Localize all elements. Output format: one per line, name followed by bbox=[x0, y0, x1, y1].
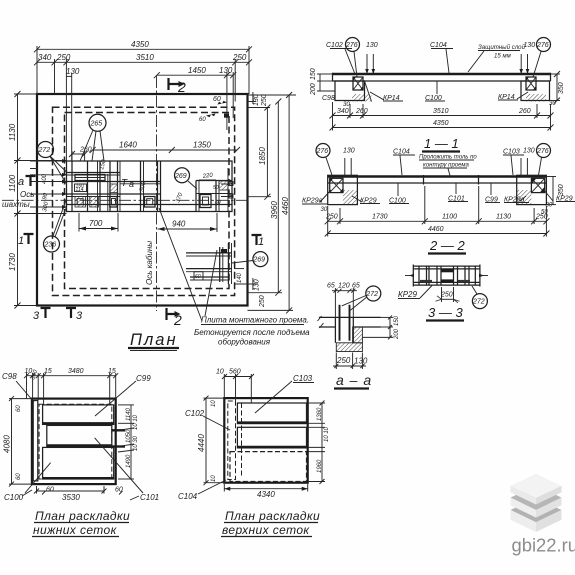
svg-text:С104: С104 bbox=[430, 42, 447, 49]
right chain 3960 bbox=[248, 99, 283, 296]
callout circle 269 right bbox=[232, 252, 268, 267]
SECTION 3-3 bbox=[398, 265, 488, 321]
slab 1 top bbox=[511, 474, 562, 505]
svg-text:План раскладки: План раскладки bbox=[35, 509, 130, 523]
left dim 4440 bbox=[197, 396, 224, 486]
beam box in grid bbox=[75, 175, 105, 181]
montage plate anchor bbox=[194, 272, 203, 280]
svg-text:130: 130 bbox=[343, 148, 355, 155]
svg-text:60: 60 bbox=[199, 117, 206, 123]
note text plita bbox=[194, 316, 310, 347]
label KP14 left with leader bbox=[370, 92, 403, 102]
right embed square with cross bbox=[526, 77, 536, 90]
right dim chain mp1 bbox=[118, 405, 139, 479]
svg-text:3: 3 bbox=[76, 310, 83, 322]
section marker 1 left bbox=[18, 234, 34, 247]
slab left edge bbox=[332, 73, 334, 81]
svg-text:Ось кабины: Ось кабины bbox=[145, 241, 154, 285]
svg-text:3: 3 bbox=[33, 310, 40, 322]
svg-text:200: 200 bbox=[394, 328, 400, 340]
svg-text:1100: 1100 bbox=[8, 174, 17, 192]
right dim chain small 130 250 top bbox=[248, 92, 297, 108]
dim 130 above left bbox=[365, 42, 378, 74]
title mp1 bbox=[32, 509, 130, 537]
right chain 1850 bbox=[248, 105, 272, 200]
svg-text:60: 60 bbox=[46, 487, 54, 494]
svg-text:90: 90 bbox=[42, 192, 49, 200]
section marker 2 top bbox=[169, 78, 187, 95]
svg-text:560: 560 bbox=[229, 369, 241, 376]
dim 130 above right s22 bbox=[521, 148, 535, 177]
svg-text:1050: 1050 bbox=[126, 429, 132, 443]
label C99 s22 bbox=[485, 184, 500, 204]
dim 130 above left s22 bbox=[343, 148, 355, 177]
svg-text:План: План bbox=[130, 331, 178, 349]
dims 250 130 aa bbox=[333, 353, 368, 370]
svg-text:gbi22.ru: gbi22.ru bbox=[512, 535, 575, 556]
label KP29a left outside bbox=[302, 190, 331, 205]
left vertical dims 150 200 bbox=[310, 68, 335, 96]
svg-text:С103: С103 bbox=[503, 149, 520, 156]
svg-text:50: 50 bbox=[213, 185, 219, 191]
end arrows bbox=[409, 274, 484, 278]
svg-text:КР29: КР29 bbox=[398, 290, 418, 299]
svg-text:150: 150 bbox=[394, 315, 400, 326]
dim chain 340 260 3510 260 bbox=[330, 102, 554, 131]
svg-text:700: 700 bbox=[89, 219, 103, 228]
svg-text:60: 60 bbox=[213, 96, 221, 103]
svg-text:10 30: 10 30 bbox=[133, 435, 139, 451]
svg-text:15 мм: 15 мм bbox=[494, 53, 512, 60]
UPPER MESH PLAN bbox=[178, 369, 330, 538]
slab bottom line bbox=[333, 80, 551, 82]
svg-text:130: 130 bbox=[354, 357, 368, 366]
svg-text:4080: 4080 bbox=[3, 435, 12, 453]
right vertical dim 350 bbox=[550, 71, 566, 104]
svg-text:План раскладки: План раскладки bbox=[225, 509, 320, 523]
title a-a bbox=[334, 372, 372, 389]
top dim mp2 bbox=[216, 369, 254, 404]
callout circle 272 bbox=[38, 142, 67, 185]
callout circle 272 s33 bbox=[472, 286, 487, 309]
svg-text:265: 265 bbox=[90, 120, 103, 127]
svg-text:276: 276 bbox=[345, 42, 358, 49]
svg-text:250: 250 bbox=[261, 94, 268, 107]
svg-text:130: 130 bbox=[366, 42, 378, 49]
svg-text:С99: С99 bbox=[136, 374, 151, 383]
svg-text:1850: 1850 bbox=[258, 147, 267, 165]
slab left break marks bbox=[318, 316, 324, 328]
svg-text:276: 276 bbox=[536, 42, 549, 49]
right support block bbox=[521, 81, 550, 101]
svg-text:276: 276 bbox=[536, 148, 549, 155]
ladder bottom rail bbox=[413, 281, 480, 283]
right hatch patch bbox=[517, 190, 532, 205]
ladder end caps bbox=[412, 265, 414, 287]
label C103 s22 bbox=[503, 149, 524, 176]
montage plate detail horizontals bbox=[186, 252, 232, 254]
callout circle 276 left s22 bbox=[316, 144, 334, 179]
top dim 1450 130 bbox=[154, 66, 236, 130]
anchor plate hatched 1 bbox=[75, 197, 86, 208]
right chain 4460 bbox=[248, 92, 294, 313]
middle mesh sheet mp2 bbox=[237, 427, 306, 448]
svg-text:272: 272 bbox=[38, 147, 51, 154]
leader C101 bbox=[95, 438, 143, 493]
title mp2 bbox=[221, 509, 320, 537]
svg-text:65: 65 bbox=[327, 283, 335, 290]
left grid verticals bbox=[71, 161, 73, 212]
dim 250 s33 bbox=[436, 287, 460, 303]
svg-text:КР29а: КР29а bbox=[302, 198, 323, 205]
anchor plate hatched 3 bbox=[110, 184, 118, 193]
anchor loop bar left bbox=[339, 305, 341, 341]
label KP29 left bbox=[352, 196, 380, 205]
svg-text:250: 250 bbox=[535, 214, 548, 221]
PLAN VIEW bbox=[2, 40, 310, 351]
bottom dim 4340 bbox=[224, 484, 307, 499]
shaft outer wall bbox=[37, 94, 248, 306]
dashed wall line outer bbox=[53, 107, 235, 295]
svg-text:130: 130 bbox=[254, 279, 261, 291]
svg-text:верхних сеток: верхних сеток bbox=[222, 523, 310, 537]
svg-text:3480: 3480 bbox=[68, 368, 84, 375]
svg-text:60: 60 bbox=[16, 405, 22, 412]
svg-text:10: 10 bbox=[216, 369, 224, 376]
svg-text:1490: 1490 bbox=[126, 454, 132, 468]
shaft horizontal axis bbox=[2, 199, 250, 201]
svg-text:С102: С102 bbox=[185, 409, 205, 418]
svg-text:120: 120 bbox=[338, 283, 350, 290]
svg-text:С98: С98 bbox=[2, 372, 17, 381]
dark weld segments bbox=[442, 269, 454, 272]
channel left wall bbox=[334, 317, 336, 342]
top mesh sheet C103 bbox=[237, 403, 306, 424]
LOWER MESH PLAN bbox=[2, 368, 159, 537]
svg-text:1100: 1100 bbox=[442, 214, 457, 221]
svg-text:250: 250 bbox=[232, 53, 247, 62]
label box 150/114 bbox=[75, 184, 87, 192]
right arrows bbox=[112, 429, 125, 431]
callout circle 269 in strip bbox=[174, 168, 197, 189]
svg-text:114: 114 bbox=[76, 187, 84, 193]
slab top thick line bbox=[328, 175, 547, 177]
label C102 with leader bbox=[326, 42, 355, 74]
leader C99 bbox=[95, 381, 136, 416]
dim 260 small above grid bbox=[69, 147, 92, 162]
left tick arrows into strip bbox=[30, 161, 66, 207]
svg-text:1: 1 bbox=[18, 235, 24, 247]
svg-text:500: 500 bbox=[139, 181, 148, 193]
svg-text:2: 2 bbox=[173, 312, 182, 328]
right vertical dim 350 s22 bbox=[546, 177, 565, 205]
LOGO bbox=[511, 474, 575, 556]
SECTION 1-1 bbox=[310, 38, 565, 152]
svg-text:1: 1 bbox=[258, 236, 264, 248]
svg-text:250: 250 bbox=[336, 356, 351, 365]
svg-text:С102: С102 bbox=[326, 42, 343, 49]
SECTION 2-2 bbox=[302, 144, 575, 254]
slab 2 middle bbox=[511, 485, 562, 517]
svg-text:1730: 1730 bbox=[372, 214, 388, 221]
svg-text:276: 276 bbox=[316, 148, 329, 155]
dim 130 above right bbox=[519, 42, 535, 74]
right hatch patch bbox=[526, 94, 546, 102]
left dim 4080 bbox=[3, 396, 32, 487]
svg-text:4460: 4460 bbox=[428, 226, 444, 233]
svg-text:260: 260 bbox=[355, 108, 368, 115]
channel right wall bbox=[352, 317, 354, 342]
svg-text:940: 940 bbox=[172, 220, 186, 229]
svg-text:130: 130 bbox=[66, 67, 80, 76]
anchor plate hatched 5 bbox=[145, 197, 156, 208]
svg-text:оборудования: оборудования bbox=[218, 338, 271, 347]
slab 3 bottom bbox=[511, 498, 562, 532]
dim 4350 bottom bbox=[330, 120, 554, 131]
svg-text:Плита монтажного проема.: Плита монтажного проема. bbox=[201, 316, 309, 325]
label C103 mp2 bbox=[255, 374, 314, 413]
label C104 with leader bbox=[430, 42, 453, 73]
SECTION a-a bbox=[318, 283, 401, 389]
svg-text:65: 65 bbox=[352, 283, 360, 290]
bottom mesh dashed mp2 bbox=[230, 452, 307, 482]
label C104 mp2 bbox=[178, 480, 226, 501]
svg-text:1140: 1140 bbox=[126, 407, 132, 421]
svg-text:370: 370 bbox=[175, 192, 184, 204]
section marker 1 right bbox=[252, 235, 265, 248]
top dim 130 small bbox=[66, 67, 80, 76]
dim 700 bbox=[79, 213, 118, 232]
cabin vertical axis bbox=[156, 76, 158, 311]
svg-text:10: 10 bbox=[211, 475, 217, 482]
svg-text:1 — 1: 1 — 1 bbox=[424, 136, 459, 151]
svg-text:1640: 1640 bbox=[119, 141, 137, 150]
label KP29 right outside bbox=[544, 190, 575, 203]
svg-text:220: 220 bbox=[201, 173, 213, 181]
svg-text:260: 260 bbox=[518, 108, 531, 115]
top dim line 4350 bbox=[34, 40, 252, 52]
opening strip outline bbox=[67, 161, 233, 212]
flag Б upper bbox=[221, 182, 233, 186]
top dim chain mp1 bbox=[24, 368, 118, 405]
flag Б lower bbox=[221, 194, 233, 198]
label C100 bbox=[425, 81, 445, 102]
section marker 3 bottom pair bbox=[33, 308, 83, 322]
svg-text:269: 269 bbox=[252, 257, 265, 264]
slab bottom line aa right bbox=[353, 326, 381, 328]
svg-text:4340: 4340 bbox=[257, 490, 275, 499]
section marker a left bbox=[18, 176, 36, 188]
svg-text:30: 30 bbox=[321, 207, 328, 213]
right chain bottom 130 250 bbox=[253, 278, 266, 308]
title 1-1 bbox=[422, 136, 460, 152]
middle mesh sheet bbox=[47, 425, 112, 446]
label C101 s22 bbox=[448, 184, 468, 203]
svg-text:15: 15 bbox=[108, 368, 116, 375]
svg-text:Защитный слой: Защитный слой bbox=[478, 44, 526, 51]
right embed square with cross bbox=[531, 178, 544, 192]
svg-text:а: а bbox=[129, 179, 134, 189]
ladder top rail bbox=[413, 265, 480, 267]
dashed mesh C100 bbox=[39, 404, 112, 479]
svg-text:250: 250 bbox=[325, 214, 338, 221]
svg-text:шахты: шахты bbox=[2, 200, 30, 209]
anchor square right bbox=[200, 195, 211, 208]
svg-text:2 — 2: 2 — 2 bbox=[429, 238, 465, 253]
svg-text:а: а bbox=[18, 176, 24, 188]
dim chain 250 1730 1100 1130 250 bbox=[325, 186, 550, 237]
strip inner bottom line bbox=[67, 204, 233, 206]
svg-text:140: 140 bbox=[237, 272, 243, 283]
svg-text:60: 60 bbox=[16, 473, 22, 480]
dim 4460 s22 bbox=[325, 226, 550, 237]
title 2-2 bbox=[428, 238, 466, 254]
svg-text:С104: С104 bbox=[178, 492, 198, 501]
svg-text:1350: 1350 bbox=[193, 141, 211, 150]
svg-text:272: 272 bbox=[472, 299, 485, 306]
left support block bbox=[328, 175, 358, 204]
strip mid divider bbox=[160, 161, 162, 212]
callout circle 276 left bbox=[345, 38, 360, 78]
callout circle 272 aa bbox=[342, 286, 381, 310]
leader C100 bbox=[25, 463, 51, 493]
svg-text:С101: С101 bbox=[140, 493, 159, 502]
svg-text:350: 350 bbox=[558, 82, 565, 94]
svg-text:нижних сеток: нижних сеток bbox=[33, 523, 118, 537]
svg-text:3530: 3530 bbox=[62, 493, 80, 502]
dim 940 bbox=[158, 213, 218, 232]
right vertical dims 150 200 aa bbox=[362, 315, 400, 340]
anchor loop bar right bbox=[349, 305, 351, 341]
svg-text:3 — 3: 3 — 3 bbox=[428, 305, 463, 320]
montage plate detail verticals bbox=[219, 247, 221, 282]
dashed wall line inner bbox=[65, 113, 230, 289]
label KP29 s33 bbox=[398, 286, 432, 300]
slab top line aa bbox=[319, 316, 381, 318]
svg-text:340: 340 bbox=[38, 53, 52, 62]
svg-text:4440: 4440 bbox=[197, 434, 206, 452]
svg-text:4460: 4460 bbox=[281, 197, 290, 215]
svg-text:250: 250 bbox=[440, 292, 453, 299]
vertical dashed inner bbox=[241, 403, 243, 478]
callout circle 265 bbox=[80, 114, 106, 161]
right support block bbox=[517, 175, 547, 204]
label C104 s22 bbox=[393, 149, 415, 176]
bottom mesh sheet C101 bbox=[43, 447, 114, 479]
svg-text:130: 130 bbox=[253, 94, 260, 106]
slab bottom line aa left bbox=[319, 326, 336, 328]
label C102 mp2 bbox=[185, 409, 230, 430]
dims 65 120 65 bbox=[327, 283, 360, 318]
svg-text:1450: 1450 bbox=[188, 66, 206, 75]
svg-text:150: 150 bbox=[310, 68, 317, 80]
svg-text:1130: 1130 bbox=[496, 214, 511, 221]
left support block bbox=[335, 81, 365, 101]
left hatch patch bbox=[352, 94, 372, 102]
svg-text:269: 269 bbox=[174, 173, 187, 180]
left embed square with cross bbox=[353, 77, 363, 90]
leader C98 bbox=[16, 381, 34, 402]
dim 1640 1350 bbox=[90, 141, 240, 154]
svg-text:250: 250 bbox=[56, 53, 71, 62]
slab right edge bbox=[550, 73, 552, 81]
label C100 s22 bbox=[389, 184, 409, 205]
svg-text:130: 130 bbox=[524, 42, 536, 49]
callout circle 236 bbox=[44, 199, 67, 252]
hatch bottom block bbox=[336, 343, 362, 352]
svg-text:60: 60 bbox=[195, 274, 201, 280]
svg-text:2: 2 bbox=[177, 79, 186, 95]
svg-text:С103: С103 bbox=[293, 374, 313, 383]
note tol po konturu bbox=[419, 155, 477, 176]
note zashitny sloy bbox=[468, 44, 526, 72]
left hatch patch bbox=[343, 190, 357, 205]
left embed square with cross bbox=[330, 178, 343, 192]
svg-text:1730: 1730 bbox=[8, 253, 17, 271]
left dashed strip C102 bbox=[228, 401, 236, 480]
svg-text:200: 200 bbox=[310, 83, 317, 96]
svg-text:С104: С104 bbox=[393, 149, 410, 156]
slab top thick line bbox=[333, 73, 551, 76]
svg-text:340: 340 bbox=[337, 108, 349, 115]
svg-text:60: 60 bbox=[215, 200, 221, 206]
right dim chain mp2 bbox=[308, 401, 330, 485]
label KP29a right bbox=[504, 196, 529, 204]
svg-text:10 10: 10 10 bbox=[324, 426, 330, 442]
label KP14 right with leader bbox=[498, 92, 528, 101]
bottom dim 3530 bbox=[34, 486, 123, 502]
svg-text:Ось: Ось bbox=[20, 190, 34, 199]
left dim chain bbox=[8, 91, 67, 309]
svg-text:Бетонируется после подъема: Бетонируется после подъема bbox=[194, 328, 310, 337]
svg-text:4350: 4350 bbox=[433, 120, 449, 127]
hatch under right slab bbox=[353, 327, 363, 343]
anchor plate hatched 2 bbox=[90, 197, 99, 208]
top extension lines bbox=[36, 46, 38, 94]
top dim line 340 250 3510 250 bbox=[34, 53, 252, 65]
title 3-3 bbox=[426, 305, 464, 321]
svg-text:272: 272 bbox=[365, 291, 378, 298]
svg-text:10 10: 10 10 bbox=[133, 414, 139, 430]
svg-text:250: 250 bbox=[259, 295, 266, 308]
left mesh strip C98 bbox=[33, 401, 38, 481]
svg-text:10: 10 bbox=[211, 400, 217, 407]
svg-text:236: 236 bbox=[44, 242, 57, 249]
svg-text:1960: 1960 bbox=[317, 459, 323, 473]
svg-text:130: 130 bbox=[523, 148, 535, 155]
outer contour bbox=[32, 399, 116, 485]
svg-text:Т: Т bbox=[121, 178, 128, 189]
leader to montage plate note bbox=[159, 208, 202, 321]
callout circle 276 right s22 bbox=[536, 144, 551, 179]
right sub-detail horizontals bbox=[196, 180, 232, 182]
top mesh sheet C99 bbox=[43, 405, 114, 425]
callout circle 276 right bbox=[533, 38, 551, 78]
svg-text:3510: 3510 bbox=[136, 53, 154, 62]
svg-text:15: 15 bbox=[44, 368, 52, 375]
svg-text:С98: С98 bbox=[322, 95, 335, 102]
svg-text:4350: 4350 bbox=[131, 40, 149, 49]
svg-text:1360: 1360 bbox=[317, 407, 323, 421]
svg-text:130: 130 bbox=[219, 66, 233, 75]
svg-text:С100: С100 bbox=[4, 493, 24, 502]
slab bottom line bbox=[328, 182, 547, 184]
section marker 2 bottom bbox=[167, 308, 183, 328]
svg-text:1130: 1130 bbox=[8, 123, 17, 141]
left grid horizontals bbox=[67, 172, 121, 174]
montage plate weld mark bbox=[221, 249, 227, 254]
title Plan bbox=[128, 331, 179, 351]
